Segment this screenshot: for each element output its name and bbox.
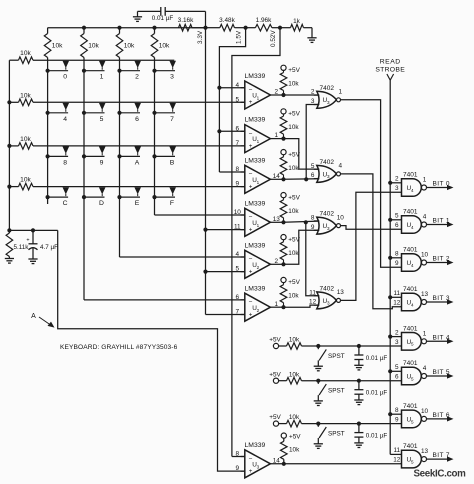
svg-text:3: 3 bbox=[327, 226, 330, 231]
svg-text:6: 6 bbox=[236, 125, 240, 132]
svg-text:10k: 10k bbox=[20, 136, 31, 143]
node READ STROBE bbox=[375, 59, 405, 81]
resistor 10k pull-up comparator 6 with +5V bbox=[270, 277, 300, 309]
resistor 10k column 2 pull-up bbox=[81, 34, 100, 58]
wire 3.3V reference line bbox=[203, 28, 244, 315]
svg-text:4: 4 bbox=[411, 188, 414, 193]
wire U3a out to U4c in 9 bbox=[341, 100, 402, 267]
svg-text:7401: 7401 bbox=[403, 360, 418, 367]
svg-text:1: 1 bbox=[339, 89, 343, 96]
svg-text:C: C bbox=[63, 200, 68, 207]
svg-text:1: 1 bbox=[257, 223, 260, 228]
resistor 10k row 2 bbox=[19, 92, 34, 105]
resistor 10k pull-up comparator 1 with +5V bbox=[270, 65, 300, 97]
svg-text:+: + bbox=[249, 184, 253, 191]
key switch A bbox=[117, 147, 141, 167]
svg-text:LM339: LM339 bbox=[245, 117, 266, 124]
capacitor 0.01uF filter bbox=[138, 7, 206, 22]
svg-text:SPST: SPST bbox=[328, 353, 345, 360]
gate U5b 7401 BIT 5 bbox=[395, 360, 453, 385]
resistor 10k row 4 bbox=[19, 177, 34, 190]
svg-text:10k: 10k bbox=[289, 414, 300, 421]
wire node A route to comparator U3 pin 9 bbox=[58, 230, 245, 471]
wire U1c out to U3b in 6 and U3a in 3 bbox=[284, 105, 320, 182]
svg-text:12: 12 bbox=[393, 300, 401, 307]
svg-text:3: 3 bbox=[170, 74, 174, 81]
svg-text:5: 5 bbox=[395, 364, 399, 371]
svg-text:2: 2 bbox=[395, 329, 399, 336]
svg-text:10k: 10k bbox=[289, 337, 300, 344]
wire 3.3V junction drop bbox=[205, 11, 207, 27]
svg-text:+: + bbox=[249, 311, 253, 318]
gate U5d 7401 BIT 7 bbox=[393, 443, 453, 468]
gate U4d 7401 BIT 3 bbox=[393, 286, 453, 311]
wire keyboard row 4 bbox=[9, 186, 244, 188]
svg-text:7401: 7401 bbox=[403, 286, 418, 293]
wire 1.5V reference line bbox=[217, 28, 245, 172]
op-amp comparator U2a LM339 bbox=[236, 242, 279, 278]
svg-text:4: 4 bbox=[423, 214, 427, 221]
svg-text:9: 9 bbox=[236, 181, 240, 188]
svg-text:BIT 2: BIT 2 bbox=[433, 256, 450, 263]
svg-text:10k: 10k bbox=[20, 177, 31, 184]
op-amp comparator U1a LM339 bbox=[236, 73, 279, 109]
svg-text:E: E bbox=[135, 200, 140, 207]
svg-text:0.01 µF: 0.01 µF bbox=[366, 433, 388, 440]
wire U1b out to U3b in 5 bbox=[284, 139, 320, 170]
wire keyboard column 3 bbox=[120, 28, 245, 257]
wire READ STROBE line bbox=[388, 80, 401, 454]
svg-text:STROBE: STROBE bbox=[375, 67, 405, 74]
svg-text:BIT 6: BIT 6 bbox=[433, 412, 450, 419]
svg-text:4: 4 bbox=[411, 302, 414, 307]
svg-text:+: + bbox=[249, 143, 253, 150]
wire keyboard column 4 bbox=[155, 28, 245, 215]
svg-text:9: 9 bbox=[395, 260, 399, 267]
svg-text:9: 9 bbox=[100, 159, 104, 166]
svg-text:8: 8 bbox=[395, 407, 399, 414]
node 3.3V bbox=[197, 26, 208, 44]
resistor 10k column 3 pull-up bbox=[116, 34, 135, 58]
wire 0.52V reference line bbox=[232, 28, 280, 457]
gate U5a 7401 BIT 4 bbox=[395, 325, 453, 350]
key switch F bbox=[152, 187, 176, 207]
svg-text:8: 8 bbox=[395, 251, 399, 258]
svg-text:+: + bbox=[249, 468, 253, 475]
svg-text:+: + bbox=[26, 238, 29, 244]
switch SPST 2 with +5V 10k and capacitor 0.01uF bbox=[269, 371, 401, 405]
op-amp comparator U2b LM339 bbox=[236, 285, 279, 321]
key switch 1 bbox=[82, 61, 106, 81]
svg-text:10k: 10k bbox=[159, 43, 170, 50]
svg-text:+: + bbox=[249, 269, 253, 276]
svg-text:7402: 7402 bbox=[320, 85, 335, 92]
svg-text:13: 13 bbox=[421, 448, 429, 455]
resistor 3.16k bbox=[178, 17, 206, 31]
svg-text:10k: 10k bbox=[124, 43, 135, 50]
svg-text:7401: 7401 bbox=[403, 443, 418, 450]
wire bottom comparator out to U5d in 12 bbox=[270, 463, 401, 465]
svg-text:1.96k: 1.96k bbox=[256, 17, 272, 24]
svg-text:0.52V: 0.52V bbox=[270, 30, 277, 47]
svg-text:10k: 10k bbox=[288, 124, 299, 131]
svg-text:1: 1 bbox=[100, 74, 104, 81]
ground 4.7uF bbox=[28, 259, 37, 264]
wire 0.52V to 1k bbox=[280, 27, 291, 29]
svg-text:SeekIC.com: SeekIC.com bbox=[414, 469, 467, 480]
gate U3b 7402 bbox=[311, 159, 343, 182]
svg-text:13: 13 bbox=[337, 289, 345, 296]
svg-text:4: 4 bbox=[411, 225, 414, 230]
svg-text:6: 6 bbox=[236, 294, 240, 301]
svg-text:1k: 1k bbox=[293, 18, 301, 25]
svg-text:0.01 µF: 0.01 µF bbox=[152, 15, 174, 22]
svg-text:BIT 7: BIT 7 bbox=[433, 452, 450, 459]
svg-text:10: 10 bbox=[234, 209, 242, 216]
svg-text:10k: 10k bbox=[88, 43, 99, 50]
svg-text:5: 5 bbox=[395, 213, 399, 220]
key switch 3 bbox=[152, 61, 176, 81]
svg-text:+5V: +5V bbox=[269, 337, 281, 344]
svg-text:LM339: LM339 bbox=[245, 200, 266, 207]
wire top 3.3V bus bbox=[48, 26, 206, 30]
svg-text:1.5V: 1.5V bbox=[236, 30, 243, 44]
svg-text:6: 6 bbox=[135, 116, 139, 123]
wire U1d out to U3c in 8 and U3d in 11 bbox=[284, 220, 320, 296]
wire keyboard row 2 bbox=[9, 101, 244, 103]
svg-text:5: 5 bbox=[236, 266, 240, 273]
svg-text:BIT 1: BIT 1 bbox=[433, 218, 450, 225]
wire U2b out to U3d in 12 bbox=[284, 305, 320, 307]
svg-text:1: 1 bbox=[257, 139, 260, 144]
resistor 10k pull-up comparator 3 with +5V bbox=[270, 150, 300, 182]
svg-text:7402: 7402 bbox=[320, 211, 335, 218]
resistor 5.11k bbox=[6, 230, 29, 256]
wire left bus to A corner bbox=[7, 228, 57, 232]
svg-text:A: A bbox=[135, 159, 140, 166]
key switch B bbox=[152, 147, 176, 167]
key switch 5 bbox=[82, 103, 106, 123]
resistor 10k row 1 bbox=[19, 50, 34, 63]
svg-text:7: 7 bbox=[170, 116, 174, 123]
svg-text:10k: 10k bbox=[288, 293, 299, 300]
gate U5c 7401 BIT 6 bbox=[395, 403, 453, 428]
svg-text:10k: 10k bbox=[288, 165, 299, 172]
wire U2a out to U3c in 9 bbox=[284, 230, 320, 264]
op-amp comparator U1c LM339 bbox=[236, 157, 281, 193]
op-amp comparator U1b LM339 bbox=[236, 117, 279, 153]
node 1.5V bbox=[236, 26, 248, 44]
resistor 10k column 1 pull-up bbox=[44, 34, 63, 58]
svg-text:2: 2 bbox=[257, 308, 260, 313]
svg-text:+5V: +5V bbox=[288, 194, 300, 201]
svg-text:10k: 10k bbox=[20, 92, 31, 99]
svg-text:0: 0 bbox=[63, 74, 67, 81]
resistor 1.96k bbox=[246, 17, 280, 31]
resistor 10k pull-up comparator 5 with +5V bbox=[270, 235, 300, 267]
wire U3d out to U4a in 3 bbox=[341, 192, 402, 300]
svg-text:BIT 4: BIT 4 bbox=[433, 334, 450, 341]
svg-text:4: 4 bbox=[63, 116, 67, 123]
svg-text:10k: 10k bbox=[20, 50, 31, 57]
svg-text:BIT 0: BIT 0 bbox=[433, 181, 450, 188]
svg-text:7401: 7401 bbox=[403, 247, 418, 254]
key switch 6 bbox=[117, 103, 141, 123]
svg-text:10k: 10k bbox=[289, 446, 300, 453]
svg-text:3: 3 bbox=[327, 174, 330, 179]
svg-text:2: 2 bbox=[135, 74, 139, 81]
capacitor 4.7uF bbox=[26, 230, 58, 259]
node 0.52V bbox=[270, 26, 282, 47]
svg-text:9: 9 bbox=[236, 465, 240, 472]
resistor 10k pull-up bottom comparator with +5V bbox=[281, 433, 302, 466]
svg-text:3: 3 bbox=[257, 464, 260, 469]
svg-text:6: 6 bbox=[395, 374, 399, 381]
svg-text:SPST: SPST bbox=[328, 388, 345, 395]
wire keyboard column 1 bbox=[47, 28, 49, 204]
key switch E bbox=[117, 187, 141, 207]
svg-text:10: 10 bbox=[421, 408, 429, 415]
svg-text:BIT 3: BIT 3 bbox=[433, 295, 450, 302]
svg-text:LM339: LM339 bbox=[245, 157, 266, 164]
wire U3c out to U4b in 6 bbox=[341, 226, 402, 230]
gate U3a 7402 bbox=[311, 85, 343, 108]
svg-text:5.11k: 5.11k bbox=[14, 244, 30, 251]
svg-text:LM339: LM339 bbox=[245, 442, 266, 449]
svg-text:+5V: +5V bbox=[288, 279, 300, 286]
svg-text:5: 5 bbox=[411, 459, 414, 464]
resistor 10k column 4 pull-up bbox=[151, 34, 170, 58]
resistor 1k bbox=[291, 18, 304, 31]
svg-text:5: 5 bbox=[411, 342, 414, 347]
key switch 7 bbox=[152, 103, 176, 123]
svg-text:B: B bbox=[170, 159, 175, 166]
svg-text:3: 3 bbox=[395, 185, 399, 192]
switch SPST 3 with +5V 10k and capacitor 0.01uF bbox=[269, 414, 401, 448]
svg-text:+5V: +5V bbox=[269, 371, 281, 378]
svg-text:+5V: +5V bbox=[289, 433, 301, 440]
svg-text:LM339: LM339 bbox=[245, 285, 266, 292]
svg-text:6: 6 bbox=[395, 222, 399, 229]
svg-text:1: 1 bbox=[423, 331, 427, 338]
svg-text:10k: 10k bbox=[288, 81, 299, 88]
key switch 8 bbox=[46, 147, 70, 167]
svg-text:7402: 7402 bbox=[320, 159, 335, 166]
svg-text:13: 13 bbox=[421, 291, 429, 298]
svg-text:1: 1 bbox=[423, 177, 427, 184]
svg-text:10: 10 bbox=[337, 214, 345, 221]
svg-text:LM339: LM339 bbox=[245, 73, 266, 80]
svg-text:7401: 7401 bbox=[403, 209, 418, 216]
gate U4c 7401 BIT 2 bbox=[395, 247, 453, 272]
svg-text:11: 11 bbox=[393, 290, 400, 297]
svg-text:4: 4 bbox=[411, 263, 414, 268]
svg-text:4: 4 bbox=[236, 82, 240, 89]
wire U3b out to U4d in 12 bbox=[341, 174, 402, 309]
svg-text:+: + bbox=[249, 227, 253, 234]
svg-text:+5V: +5V bbox=[288, 111, 300, 118]
svg-text:8: 8 bbox=[63, 159, 67, 166]
key switch 9 bbox=[82, 147, 106, 167]
key switch 4 bbox=[46, 103, 70, 123]
svg-text:10k: 10k bbox=[288, 250, 299, 257]
svg-text:4: 4 bbox=[423, 365, 427, 372]
resistor 3.48k bbox=[206, 17, 246, 31]
svg-text:7401: 7401 bbox=[403, 403, 418, 410]
wire keyboard row 3 bbox=[9, 145, 244, 147]
svg-text:2: 2 bbox=[395, 176, 399, 183]
svg-text:1: 1 bbox=[257, 180, 260, 185]
svg-text:0.01 µF: 0.01 µF bbox=[366, 355, 388, 362]
svg-text:KEYBOARD: GRAYHILL #87YY3503-6: KEYBOARD: GRAYHILL #87YY3503-6 bbox=[60, 344, 178, 351]
svg-text:10: 10 bbox=[421, 252, 429, 259]
svg-text:3: 3 bbox=[395, 339, 399, 346]
svg-text:+: + bbox=[249, 99, 253, 106]
svg-text:3.3V: 3.3V bbox=[197, 30, 204, 44]
gate U3c 7402 bbox=[311, 211, 344, 234]
svg-text:3.16k: 3.16k bbox=[178, 17, 194, 24]
resistor 10k pull-up comparator 4 with +5V bbox=[270, 193, 300, 225]
svg-text:10k: 10k bbox=[288, 208, 299, 215]
svg-text:5: 5 bbox=[411, 419, 414, 424]
svg-text:READ: READ bbox=[380, 59, 401, 66]
svg-text:3: 3 bbox=[327, 100, 330, 105]
wire left row bus bbox=[7, 60, 11, 230]
svg-text:10k: 10k bbox=[289, 371, 300, 378]
svg-text:A: A bbox=[31, 313, 36, 320]
svg-text:3: 3 bbox=[327, 301, 330, 306]
key switch C bbox=[46, 187, 70, 207]
svg-text:SPST: SPST bbox=[328, 431, 345, 438]
svg-text:7401: 7401 bbox=[403, 325, 418, 332]
svg-text:2: 2 bbox=[257, 265, 260, 270]
svg-text:4: 4 bbox=[339, 163, 343, 170]
svg-text:8: 8 bbox=[236, 166, 240, 173]
node A bbox=[31, 313, 54, 328]
svg-text:+5V: +5V bbox=[288, 67, 300, 74]
svg-text:8: 8 bbox=[236, 451, 240, 458]
resistor 10k row 3 bbox=[19, 136, 34, 149]
svg-text:BIT 5: BIT 5 bbox=[433, 369, 450, 376]
svg-text:9: 9 bbox=[395, 416, 399, 423]
key switch D bbox=[82, 187, 106, 207]
wire U1a out to U3a in 2 bbox=[284, 94, 320, 96]
svg-text:3.48k: 3.48k bbox=[219, 17, 235, 24]
svg-text:5: 5 bbox=[236, 96, 240, 103]
op-amp comparator U3 LM339 bottom bbox=[236, 442, 281, 478]
svg-text:4.7 µF: 4.7 µF bbox=[40, 244, 58, 251]
svg-text:7402: 7402 bbox=[320, 286, 335, 293]
svg-text:D: D bbox=[99, 200, 104, 207]
svg-text:10k: 10k bbox=[52, 43, 63, 50]
op-amp comparator U1d LM339 bbox=[234, 200, 281, 236]
resistor 10k pull-up comparator 2 with +5V bbox=[270, 109, 300, 141]
svg-text:LM339: LM339 bbox=[245, 242, 266, 249]
svg-text:7401: 7401 bbox=[403, 172, 418, 179]
svg-text:11: 11 bbox=[393, 447, 400, 454]
svg-text:4: 4 bbox=[236, 251, 240, 258]
svg-text:7: 7 bbox=[236, 140, 240, 147]
key switch 2 bbox=[117, 61, 141, 81]
svg-text:11: 11 bbox=[234, 224, 241, 231]
wire keyboard row 1 bbox=[9, 59, 174, 61]
ground 5.11k bbox=[5, 257, 14, 264]
svg-text:+5V: +5V bbox=[269, 414, 281, 421]
ground 1k bbox=[304, 28, 317, 43]
svg-text:1: 1 bbox=[257, 96, 260, 101]
svg-text:12: 12 bbox=[393, 457, 401, 464]
svg-text:5: 5 bbox=[100, 116, 104, 123]
switch SPST 1 with +5V 10k and capacitor 0.01uF bbox=[269, 337, 401, 371]
gate U4a 7401 BIT 0 bbox=[395, 172, 453, 197]
svg-text:F: F bbox=[170, 200, 174, 207]
gate U4b 7401 BIT 1 bbox=[395, 209, 453, 234]
key switch 0 bbox=[46, 61, 70, 81]
wire keyboard column 2 bbox=[84, 28, 245, 300]
ground filter cap bbox=[133, 11, 142, 21]
gate U3d 7402 bbox=[309, 286, 344, 309]
svg-text:0.01 µF: 0.01 µF bbox=[366, 390, 388, 397]
svg-text:5: 5 bbox=[411, 376, 414, 381]
svg-text:7: 7 bbox=[236, 309, 240, 316]
